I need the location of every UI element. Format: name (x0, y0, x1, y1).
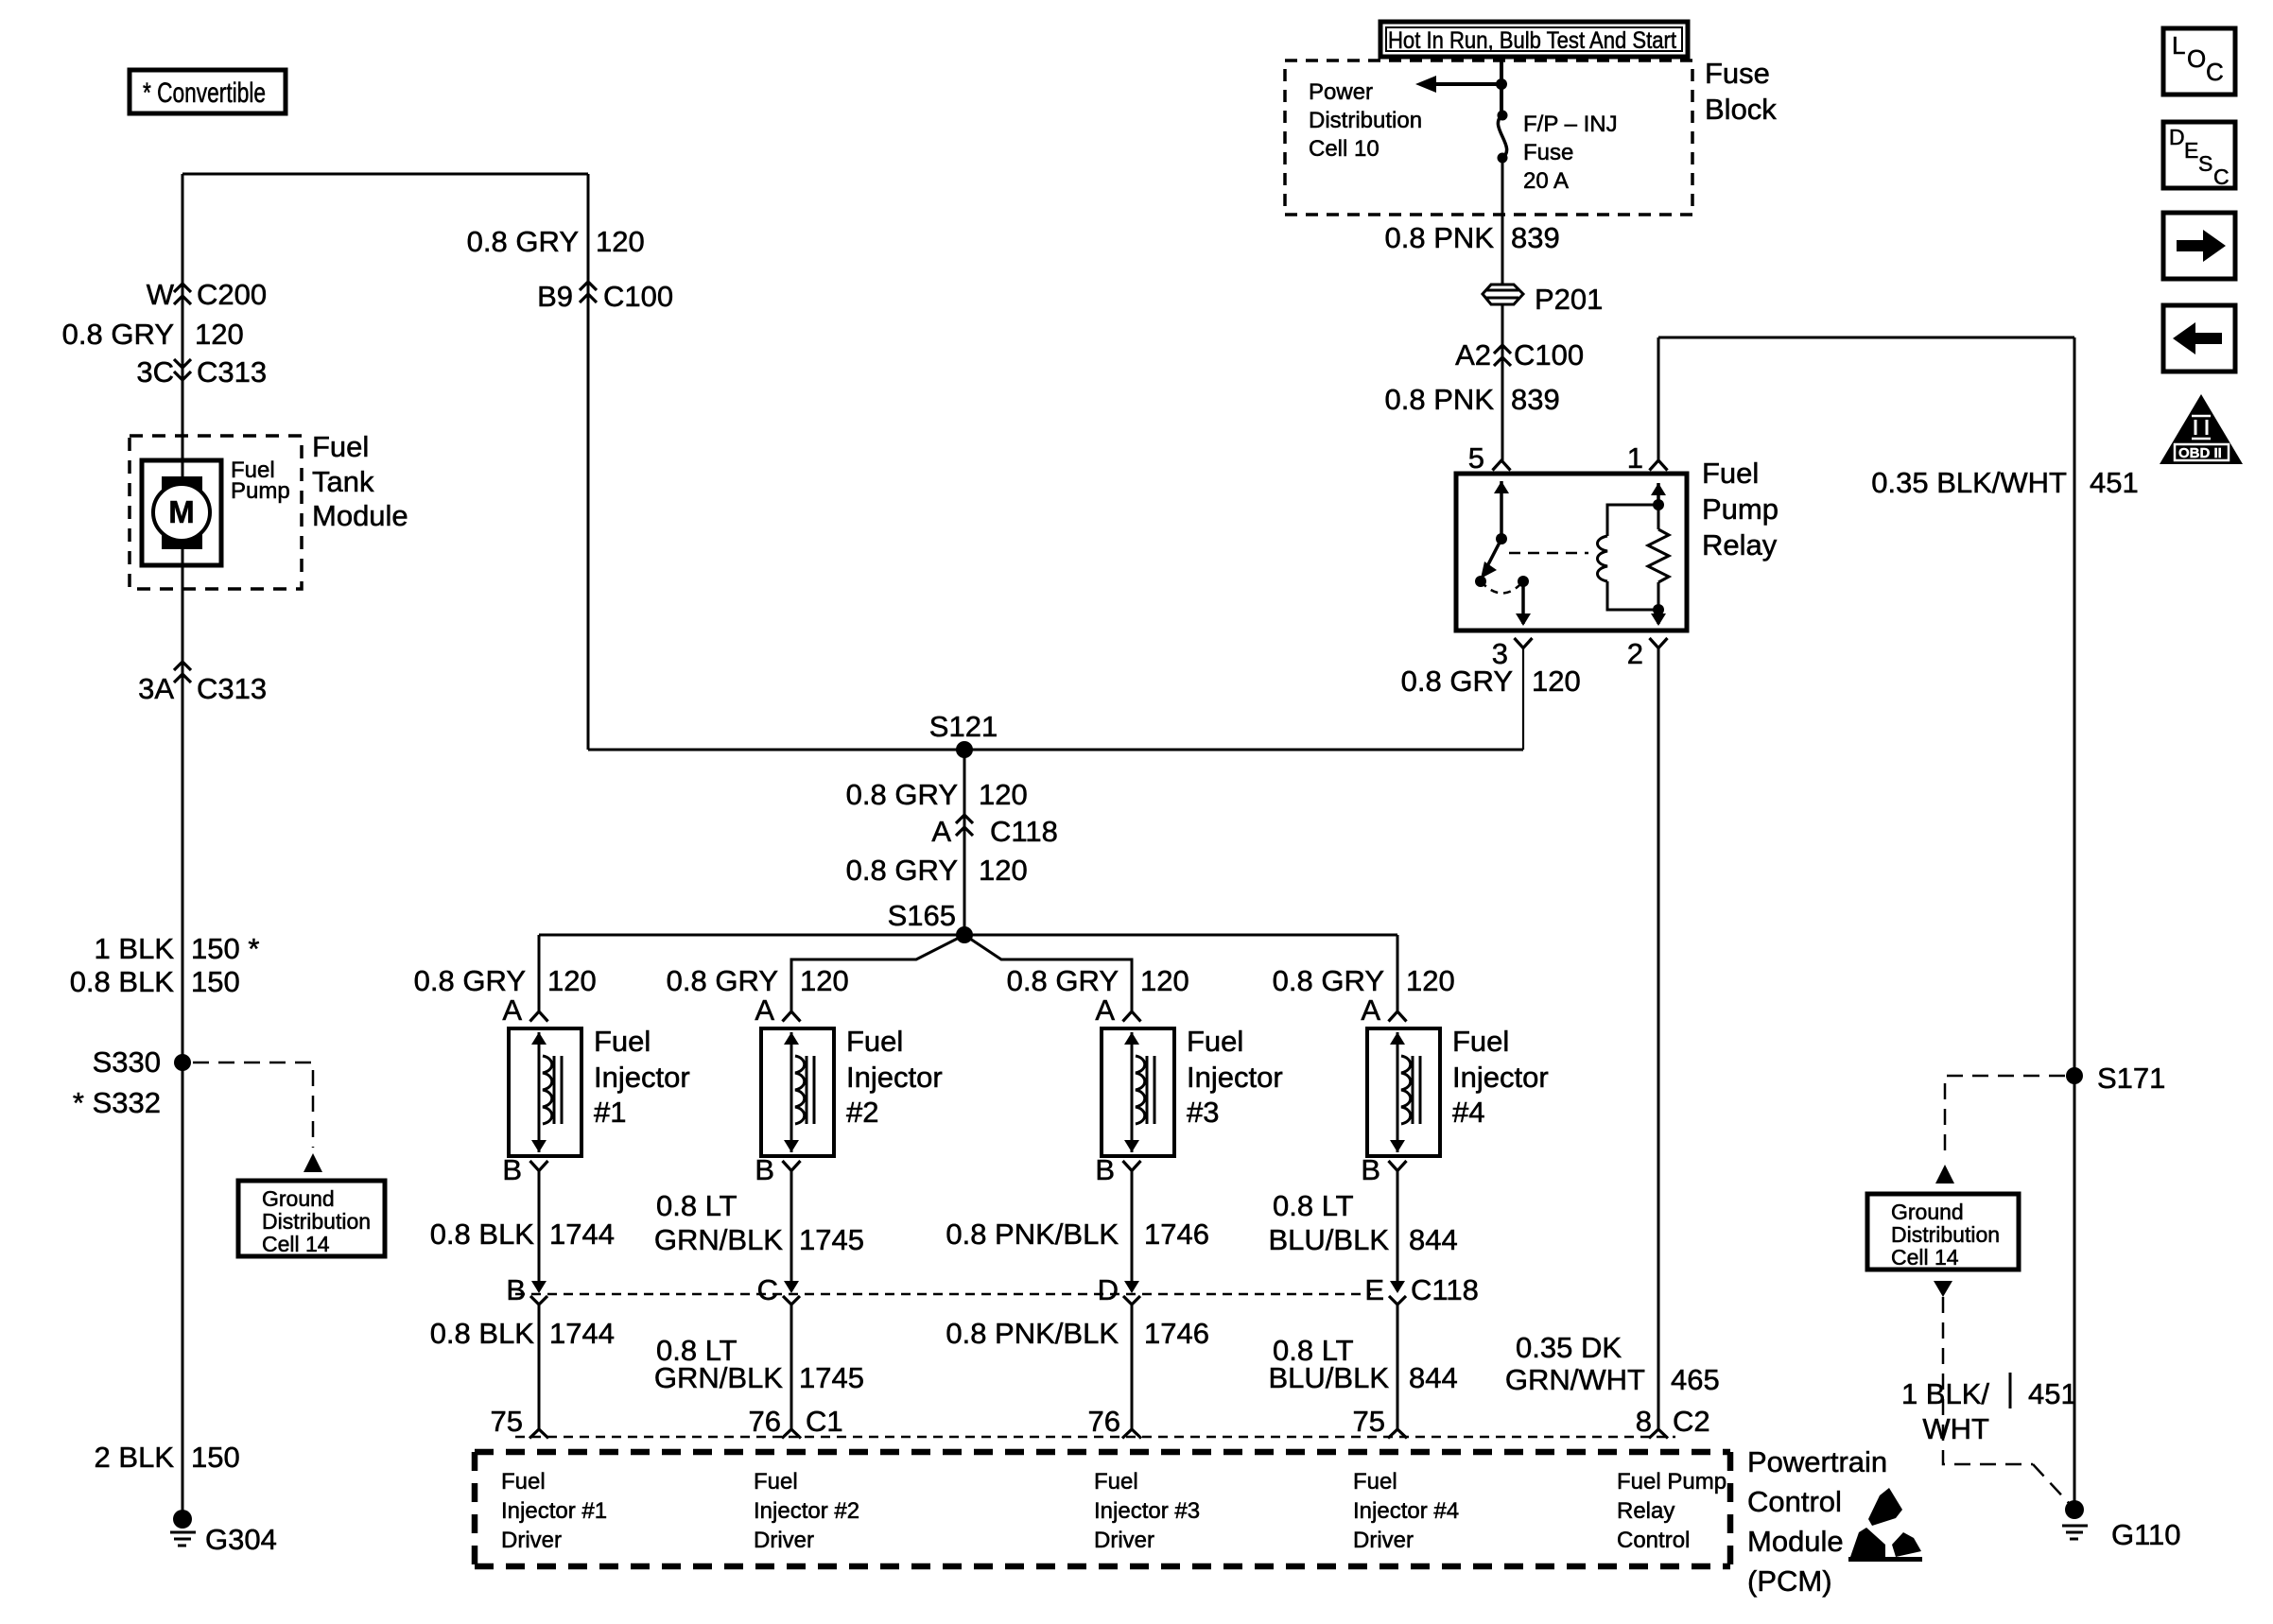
wire label 0.35 BLK/WHT 451 (1871, 466, 2138, 499)
svg-text:Control: Control (1747, 1485, 1842, 1518)
connector C313 pin 3A (138, 662, 267, 705)
svg-text:GRN/BLK: GRN/BLK (654, 1361, 783, 1394)
ESD sensitive symbol (1848, 1488, 1922, 1562)
wire: injector #4 to C118 (1390, 1170, 1405, 1293)
svg-text:C200: C200 (197, 278, 267, 311)
svg-text:GRN/BLK: GRN/BLK (654, 1223, 783, 1256)
svg-text:C313: C313 (197, 672, 267, 705)
PCM pin 75 (injector 4) (1353, 1405, 1385, 1438)
svg-text:120: 120 (979, 854, 1028, 887)
fuel injector #2 pin A (755, 993, 800, 1027)
svg-text:F/P – INJ: F/P – INJ (1523, 112, 1618, 137)
svg-text:1746: 1746 (1144, 1218, 1209, 1251)
connector C313 pin 3C (136, 355, 267, 389)
svg-text:Cell 10: Cell 10 (1309, 136, 1379, 162)
svg-text:Pump: Pump (231, 478, 290, 504)
svg-text:2: 2 (1627, 637, 1643, 670)
svg-text:OBD II: OBD II (2178, 445, 2222, 461)
wire label 0.8 PNK 839 (second) (1385, 383, 1560, 416)
wire label 0.8 GRY 120 (B9 wire) (467, 225, 645, 258)
wire label 0.8 GRY 120 (left wire) (62, 318, 244, 351)
PCM pin 76 C1 (injector 2) (749, 1405, 843, 1438)
wire: bus down to injector 4 (1397, 935, 1399, 1011)
svg-text:Hot In Run, Bulb Test And Star: Hot In Run, Bulb Test And Start (1388, 27, 1676, 54)
wire: P201 to relay pin 5 (1501, 304, 1504, 460)
splice S121 (929, 710, 998, 758)
svg-text:C: C (757, 1273, 778, 1306)
svg-text:BLU/BLK: BLU/BLK (1268, 1223, 1389, 1256)
relay pin 1 (1627, 441, 1668, 475)
PCM pin 8 C2 (relay control) (1636, 1405, 1710, 1438)
wire label 2 BLK 150 (95, 1441, 240, 1474)
svg-text:Injector: Injector (846, 1061, 943, 1094)
connector C100 pin B9 (537, 280, 673, 313)
svg-text:Injector #1: Injector #1 (501, 1498, 607, 1524)
label Fuel Injector #4 Driver (1353, 1469, 1459, 1553)
fuel injector #3 pin A (1095, 993, 1140, 1027)
svg-text:0.8 GRY: 0.8 GRY (846, 778, 958, 811)
svg-text:Tank: Tank (312, 465, 374, 498)
icon arrow left (2163, 305, 2235, 371)
svg-text:A: A (1361, 993, 1380, 1027)
svg-text:Control: Control (1617, 1528, 1690, 1553)
fuel injector #1 (509, 1028, 581, 1156)
svg-text:0.8 GRY: 0.8 GRY (62, 318, 174, 351)
svg-text:Fuel: Fuel (1452, 1025, 1509, 1058)
svg-text:1745: 1745 (799, 1223, 864, 1256)
splice S171 (2066, 1062, 2165, 1095)
svg-text:150: 150 (191, 1441, 240, 1474)
svg-text:0.8 GRY: 0.8 GRY (1007, 964, 1119, 997)
svg-text:S121: S121 (929, 710, 998, 743)
connector C118 dashed line (515, 1293, 1371, 1296)
svg-text:#2: #2 (846, 1096, 878, 1129)
connector C100 pin A2 (1455, 338, 1584, 371)
PCM pin 76 (injector 3) (1088, 1405, 1120, 1438)
svg-text:Powertrain: Powertrain (1747, 1445, 1887, 1478)
wire: S121 down to S165 (963, 750, 966, 935)
wire label 1 BLK 150 * (95, 932, 260, 965)
svg-text:#4: #4 (1452, 1096, 1484, 1129)
arrow to power distribution cell 10 (1415, 76, 1501, 93)
fuel injector #1 pin A (502, 993, 547, 1027)
svg-text:Fuel Pump: Fuel Pump (1617, 1469, 1726, 1494)
label Fuse Block (1705, 57, 1777, 126)
svg-text:451: 451 (2028, 1377, 2077, 1410)
splice S330 / S332 (73, 1045, 191, 1119)
fuel injector #4 (1367, 1028, 1440, 1156)
svg-text:839: 839 (1511, 383, 1560, 416)
wire: relay pin 1 up and across to right bus (1658, 337, 2074, 460)
svg-text:Cell 14: Cell 14 (1891, 1245, 1959, 1270)
svg-text:0.8 PNK: 0.8 PNK (1385, 221, 1495, 254)
wire label 0.8 PNK/BLK 1746 (upper) (946, 1218, 1209, 1251)
pass-through grommet P201 (1483, 283, 1603, 316)
fuel injector #1 pin B (502, 1153, 547, 1186)
wire label 0.8 GRY 120 (below S121) (846, 778, 1028, 811)
svg-text:3C: 3C (136, 355, 174, 389)
connector C200 pin W (147, 278, 267, 311)
svg-text:120: 120 (547, 964, 597, 997)
svg-text:1744: 1744 (549, 1317, 615, 1350)
svg-text:0.8 GRY: 0.8 GRY (414, 964, 526, 997)
svg-text:Fuel: Fuel (1094, 1469, 1138, 1494)
svg-text:Pump: Pump (1702, 492, 1778, 526)
fuel injector #4 pin B (1361, 1153, 1406, 1186)
svg-text:1 BLK: 1 BLK (95, 932, 175, 965)
wire label 0.8 LT GRN/BLK 1745 (lower) (654, 1334, 864, 1394)
svg-text:E: E (2184, 138, 2198, 163)
svg-text:1 BLK/: 1 BLK/ (1901, 1377, 1989, 1410)
svg-text:* S332: * S332 (73, 1086, 161, 1119)
fuel injector #2 (761, 1028, 834, 1156)
svg-text:Cell 14: Cell 14 (262, 1232, 330, 1256)
wire label 0.8 BLK 1744 (lower) (430, 1317, 615, 1350)
svg-text:0.8 LT: 0.8 LT (656, 1189, 737, 1222)
svg-text:3A: 3A (138, 672, 174, 705)
PCM connector dashed line C1/C2 (515, 1436, 1675, 1439)
svg-text:P201: P201 (1535, 283, 1603, 316)
svg-text:0.8 PNK: 0.8 PNK (1385, 383, 1495, 416)
svg-text:C118: C118 (990, 815, 1058, 848)
wire: right vertical 0.35 BLK/WHT 451 to G110 (2073, 337, 2076, 1510)
label Fuel Injector #3 Driver (1094, 1469, 1200, 1553)
node: junction to power distribution (1496, 78, 1507, 90)
label Fuel Injector #3 (1187, 1025, 1283, 1129)
svg-text:0.8 GRY: 0.8 GRY (667, 964, 778, 997)
svg-text:120: 120 (1406, 964, 1455, 997)
svg-text:WHT: WHT (1922, 1412, 1989, 1445)
svg-text:Injector: Injector (594, 1061, 690, 1094)
svg-text:Injector: Injector (1187, 1061, 1283, 1094)
svg-text:Driver: Driver (754, 1528, 814, 1553)
PCM pin 75 (injector 1) (491, 1405, 523, 1438)
svg-text:150 *: 150 * (191, 932, 259, 965)
svg-text:Injector #3: Injector #3 (1094, 1498, 1200, 1524)
svg-text:Fuel: Fuel (754, 1469, 798, 1494)
label Fuel Injector #2 Driver (754, 1469, 859, 1553)
label Fuel Pump Relay Control (1617, 1469, 1726, 1553)
svg-text:0.8 PNK/BLK: 0.8 PNK/BLK (946, 1317, 1119, 1350)
wire: injector feed bus (539, 934, 1397, 937)
svg-text:Fuse: Fuse (1705, 57, 1770, 90)
svg-text:Distribution: Distribution (1309, 108, 1422, 133)
svg-text:0.8 BLK: 0.8 BLK (430, 1218, 535, 1251)
wire label 0.8 GRY 120 (injector #2 feed) (667, 964, 849, 997)
svg-text:0.35 BLK/WHT: 0.35 BLK/WHT (1871, 466, 2067, 499)
svg-text:Driver: Driver (1353, 1528, 1414, 1553)
icon LOC (2163, 28, 2235, 95)
svg-text:B9: B9 (537, 280, 573, 313)
fuse F/P-INJ 20 A (1498, 111, 1618, 195)
svg-text:Power: Power (1309, 79, 1373, 105)
svg-text:Module: Module (312, 499, 408, 532)
svg-text:2 BLK: 2 BLK (95, 1441, 175, 1474)
svg-text:GRN/WHT: GRN/WHT (1505, 1363, 1645, 1396)
svg-text:0.35 DK: 0.35 DK (1516, 1331, 1622, 1364)
ground distribution cell 14 box (right) (1867, 1194, 2019, 1270)
svg-text:C: C (2213, 164, 2230, 189)
svg-text:76: 76 (749, 1405, 781, 1438)
wire label 0.8 BLK 1744 (upper) (430, 1218, 615, 1251)
fuel pump relay box (1456, 474, 1687, 631)
svg-text:Distribution: Distribution (262, 1209, 371, 1234)
wire: injector #1 to C118 (531, 1170, 547, 1293)
label Fuel Pump (inside module) (231, 458, 290, 504)
svg-text:Injector: Injector (1452, 1061, 1549, 1094)
fuse block dashed box (1285, 60, 1692, 215)
svg-text:76: 76 (1088, 1405, 1120, 1438)
dashed link S171 to ground distribution (right) (1935, 1076, 2065, 1183)
svg-text:D: D (2169, 125, 2185, 149)
wire: vertical 0.8 GRY 120 from top run to S121 (587, 174, 590, 750)
wire: S121 horizontal run (588, 749, 1523, 752)
wire label 0.8 GRY 120 (injector #3 feed) (1007, 964, 1189, 997)
svg-text:G110: G110 (2111, 1518, 2181, 1551)
svg-text:M: M (168, 494, 195, 529)
svg-text:D: D (1098, 1273, 1119, 1306)
svg-text:120: 120 (596, 225, 645, 258)
relay coil (1598, 505, 1659, 610)
svg-text:844: 844 (1409, 1361, 1458, 1394)
svg-text:Relay: Relay (1617, 1498, 1674, 1524)
dashed link ground distribution to G110 (1934, 1281, 2069, 1503)
label Fuel Injector #1 (594, 1025, 690, 1129)
relay linkage dashed (1509, 552, 1588, 555)
svg-text:B: B (502, 1153, 522, 1186)
svg-text:1: 1 (1627, 441, 1643, 475)
svg-text:120: 120 (1532, 665, 1581, 698)
powertrain control module dashed box (475, 1452, 1730, 1566)
svg-text:Fuel: Fuel (846, 1025, 903, 1058)
connector C118 pin B (506, 1273, 526, 1306)
svg-text:S: S (2198, 151, 2212, 176)
svg-text:451: 451 (2090, 466, 2139, 499)
svg-text:A: A (755, 993, 774, 1027)
wire: left vertical 0.8 GRY 120 down to fuel pump (182, 174, 184, 488)
svg-text:0.8 GRY: 0.8 GRY (1401, 665, 1513, 698)
relay switch (pins 5-3) (1475, 481, 1531, 626)
svg-text:W: W (147, 278, 175, 311)
svg-text:1744: 1744 (549, 1218, 615, 1251)
svg-text:Driver: Driver (1094, 1528, 1154, 1553)
svg-text:1746: 1746 (1144, 1317, 1209, 1350)
svg-text:B: B (1095, 1153, 1115, 1186)
icon DESC (2163, 122, 2235, 189)
svg-text:0.8 GRY: 0.8 GRY (467, 225, 579, 258)
connector C118 pin C (757, 1273, 778, 1306)
svg-text:120: 120 (800, 964, 849, 997)
svg-text:120: 120 (979, 778, 1028, 811)
svg-text:A: A (931, 815, 951, 848)
svg-text:839: 839 (1511, 221, 1560, 254)
connector C118 pin E (1364, 1273, 1479, 1306)
svg-text:Ground: Ground (262, 1186, 335, 1211)
wire label 0.8 PNK/BLK 1746 (lower) (946, 1317, 1209, 1350)
ground distribution cell 14 box (left) (238, 1181, 385, 1256)
svg-text:0.8 BLK: 0.8 BLK (70, 965, 175, 998)
svg-text:Relay: Relay (1702, 528, 1778, 561)
fuel injector #2 pin B (755, 1153, 800, 1186)
svg-text:0.8 GRY: 0.8 GRY (1273, 964, 1384, 997)
connector C118 pin A (931, 815, 1058, 848)
svg-text:Driver: Driver (501, 1528, 562, 1553)
svg-text:O: O (2187, 44, 2206, 73)
fuel injector #3 (1102, 1028, 1174, 1156)
feed box: Hot In Run, Bulb Test And Start (1380, 22, 1688, 57)
wire label 0.8 LT BLU/BLK 844 (lower) (1268, 1334, 1457, 1394)
svg-text:0.8 PNK/BLK: 0.8 PNK/BLK (946, 1218, 1119, 1251)
wire: fuel pump relay control 0.35 DK GRN/WHT 465 (1649, 648, 1668, 1439)
svg-text:A: A (502, 993, 522, 1027)
svg-text:Fuse: Fuse (1523, 140, 1573, 165)
wire: S165 branch to injector 3 (964, 935, 1132, 1011)
relay resistor (pins 1-2) (1648, 483, 1669, 626)
svg-text:Injector #2: Injector #2 (754, 1498, 859, 1524)
svg-text:S171: S171 (2097, 1062, 2165, 1095)
svg-text:L: L (2172, 31, 2185, 60)
fuel pump motor M (142, 460, 221, 565)
relay pin 3 (1492, 637, 1533, 670)
label Power Distribution Cell 10 (1309, 79, 1422, 162)
svg-text:C100: C100 (1514, 338, 1584, 371)
label Powertrain Control Module (PCM) (1747, 1445, 1887, 1598)
fuel injector #3 pin B (1095, 1153, 1140, 1186)
svg-text:75: 75 (1353, 1405, 1385, 1438)
svg-text:C2: C2 (1673, 1405, 1710, 1438)
svg-text:0.8 BLK: 0.8 BLK (430, 1317, 535, 1350)
wire label 0.8 GRY 120 (injector #1 feed) (414, 964, 597, 997)
svg-text:75: 75 (491, 1405, 523, 1438)
svg-text:C313: C313 (197, 355, 267, 389)
label Fuel Injector #2 (846, 1025, 943, 1129)
wire label 0.8 LT BLU/BLK 844 (upper) (1268, 1189, 1457, 1256)
label Fuel Injector #1 Driver (501, 1469, 607, 1553)
label Fuel Pump Relay (1702, 457, 1778, 561)
svg-text:C1: C1 (806, 1405, 843, 1438)
icon arrow right (2163, 213, 2235, 279)
label Fuel Injector #4 (1452, 1025, 1549, 1129)
svg-text:Fuel: Fuel (501, 1469, 546, 1494)
svg-text:B: B (755, 1153, 774, 1186)
svg-text:120: 120 (195, 318, 244, 351)
fuel injector #4 pin A (1361, 993, 1406, 1027)
svg-text:Module: Module (1747, 1525, 1844, 1558)
wire: C118 to PCM (injector #1 circuit) (529, 1296, 548, 1439)
svg-text:120: 120 (1140, 964, 1189, 997)
svg-text:B: B (1361, 1153, 1380, 1186)
svg-text:465: 465 (1671, 1363, 1720, 1396)
wire: fuse to P201 (1501, 163, 1504, 284)
svg-text:Block: Block (1705, 93, 1777, 126)
wire: injector #2 to C118 (784, 1170, 799, 1293)
svg-text:C: C (2206, 58, 2224, 86)
note box * Convertible (130, 70, 286, 113)
wire: top horizontal from fuel pump branch to B9 C100 branch (182, 173, 588, 176)
wire: C118 to PCM (injector #4 circuit) (1388, 1296, 1407, 1439)
wire: S165 branch to injector 2 (791, 935, 964, 1011)
svg-text:Fuel: Fuel (1187, 1025, 1243, 1058)
relay pin 5 (1468, 441, 1511, 475)
svg-text:#3: #3 (1187, 1096, 1219, 1129)
wire: C118 to PCM (injector #3 circuit) (1122, 1296, 1141, 1439)
ground G110 (2062, 1500, 2181, 1551)
svg-text:Fuel: Fuel (1353, 1469, 1397, 1494)
svg-text:A2: A2 (1455, 338, 1491, 371)
wire label 0.35 DK GRN/WHT 465 (1505, 1331, 1720, 1396)
svg-text:Fuel: Fuel (1702, 457, 1759, 490)
svg-text:C100: C100 (603, 280, 673, 313)
wire label 0.8 GRY 120 (relay pin 3) (1401, 665, 1581, 698)
svg-text:20 A: 20 A (1523, 168, 1569, 194)
wire: fuel pump to ground G304 (182, 541, 184, 1519)
svg-text:BLU/BLK: BLU/BLK (1268, 1361, 1389, 1394)
svg-text:C118: C118 (1411, 1273, 1479, 1306)
wire label 0.8 GRY 120 (injector #4 feed) (1273, 964, 1455, 997)
svg-text:B: B (506, 1273, 526, 1306)
wire label 0.8 GRY 120 (above S165) (846, 854, 1028, 887)
svg-text:0.8 GRY: 0.8 GRY (846, 854, 958, 887)
label Fuel Tank Module (312, 430, 408, 532)
wire: C118 to PCM (injector #2 circuit) (782, 1296, 801, 1439)
wire label 0.8 PNK 839 (1385, 221, 1560, 254)
svg-text:Fuel: Fuel (312, 430, 369, 463)
splice S165 (888, 899, 973, 943)
svg-text:(PCM): (PCM) (1747, 1564, 1832, 1598)
fuel tank module dashed box (130, 436, 302, 589)
svg-text:Distribution: Distribution (1891, 1222, 2000, 1247)
ground G304 (170, 1510, 277, 1556)
svg-text:E: E (1364, 1273, 1384, 1306)
wire: bus down to injector 1 (538, 935, 541, 1011)
svg-text:Fuel: Fuel (594, 1025, 651, 1058)
svg-text:844: 844 (1409, 1223, 1458, 1256)
wire label 1 BLK/WHT 451 (1901, 1373, 2077, 1445)
dashed link S330 to ground distribution (193, 1063, 322, 1172)
wire label 0.8 LT GRN/BLK 1745 (upper) (654, 1189, 864, 1256)
svg-text:#1: #1 (594, 1096, 626, 1129)
svg-text:5: 5 (1468, 441, 1484, 475)
svg-text:8: 8 (1636, 1405, 1652, 1438)
svg-text:A: A (1095, 993, 1115, 1027)
svg-text:0.8 LT: 0.8 LT (1273, 1189, 1354, 1222)
wire from feed into fuse block (1500, 56, 1503, 115)
svg-text:1745: 1745 (799, 1361, 864, 1394)
connector C118 pin D (1098, 1273, 1119, 1306)
wire label 0.8 BLK 150 (70, 965, 240, 998)
relay pin 2 (1627, 637, 1668, 670)
svg-text:Ground: Ground (1891, 1200, 1964, 1224)
svg-text:G304: G304 (205, 1523, 277, 1556)
svg-text:S165: S165 (888, 899, 956, 932)
icon OBD II triangle (2160, 394, 2243, 464)
svg-text:* Convertible: * Convertible (143, 78, 266, 109)
wire: injector #3 to C118 (1124, 1170, 1139, 1293)
svg-text:150: 150 (191, 965, 240, 998)
svg-text:Injector #4: Injector #4 (1353, 1498, 1459, 1524)
svg-text:S330: S330 (93, 1045, 161, 1079)
wire: relay pin 3 down to S121 run (1522, 648, 1524, 750)
